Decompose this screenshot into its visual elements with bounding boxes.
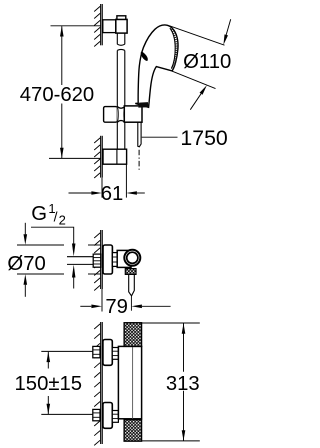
- handle inner circle: [127, 252, 138, 263]
- dia 70 extension bottom: [17, 273, 101, 275]
- spray face inner rim: [170, 28, 175, 68]
- wall extension below: [101, 289, 103, 312]
- bottom union nut: [93, 409, 100, 420]
- 313 extension top: [142, 322, 200, 324]
- wall hatching (top): [94, 6, 100, 46]
- svg-text:470-620: 470-620: [20, 84, 94, 106]
- svg-text:Ø70: Ø70: [7, 253, 45, 275]
- rail top piece: [116, 19, 127, 33]
- 61 extension left: [101, 178, 103, 198]
- top nipple: [112, 348, 118, 360]
- shower hose: [138, 122, 141, 147]
- dia 110 upper extension: [170, 26, 225, 45]
- svg-text:79: 79: [105, 296, 128, 318]
- bottom grip handle: [124, 420, 142, 442]
- knurled hose nut: [125, 269, 136, 275]
- holder waist: [117, 107, 126, 121]
- wall hatching (middle): [94, 233, 100, 291]
- tube break symbol: [117, 44, 125, 45]
- rail cap: [117, 16, 126, 20]
- dia 70 upper arrow: [24, 223, 26, 235]
- wall (middle): [101, 230, 103, 289]
- svg-text:/: /: [54, 208, 58, 224]
- glide holder knob (left): [104, 107, 117, 123]
- G 1/2 lower arrow: [73, 277, 75, 289]
- outlet tube: [129, 274, 135, 296]
- wall (bottom figure): [101, 322, 103, 444]
- top escutcheon: [103, 340, 112, 366]
- G 1/2 leader: [31, 227, 74, 244]
- bracket arm (top): [103, 20, 116, 33]
- 61 extension right: [125, 164, 127, 197]
- hand shower body: [135, 25, 178, 107]
- 150 extension bottom: [41, 413, 92, 415]
- dimension line 470-620: [61, 26, 63, 158]
- pipe nut: [93, 254, 101, 267]
- dimension 313 line: [183, 323, 185, 441]
- wall (bottom): [101, 136, 103, 178]
- dia 110 lower arrow: [190, 94, 201, 110]
- supply pipe behind wall: [67, 257, 93, 265]
- svg-text:150±15: 150±15: [15, 373, 83, 395]
- rail tube: [117, 33, 125, 149]
- dia 110 upper arrow: [226, 19, 231, 35]
- dia 70 extension top: [17, 244, 101, 246]
- valve body front: [118, 346, 141, 418]
- valve barrel: [117, 250, 131, 267]
- spray nozzle dots: [171, 29, 176, 69]
- dimension 61: [69, 192, 92, 194]
- svg-text:61: 61: [101, 183, 124, 205]
- body inner line: [132, 346, 134, 418]
- bottom escutcheon: [103, 403, 112, 429]
- holder cone (right): [124, 106, 142, 122]
- hose center dash-dot: [138, 150, 140, 172]
- dia 110 lower extension: [172, 71, 215, 88]
- bottom nipple: [112, 411, 118, 423]
- 313 extension bottom: [142, 440, 200, 442]
- extension line bottom (470-620): [49, 157, 101, 159]
- wall hatching (bottom): [94, 138, 100, 178]
- bottom bracket: [103, 149, 127, 164]
- dia 70 lower arrow: [24, 285, 26, 297]
- dimension 79: [80, 305, 91, 307]
- adapter: [112, 253, 117, 267]
- handle outer circle: [124, 250, 140, 266]
- svg-text:Ø110: Ø110: [183, 51, 231, 73]
- 150 extension top: [41, 350, 92, 352]
- handle collar (dark): [138, 102, 149, 108]
- wall (top): [101, 4, 103, 45]
- svg-text:2: 2: [59, 213, 66, 228]
- tube tip extension: [130, 297, 132, 311]
- svg-text:G: G: [31, 203, 47, 225]
- svg-text:313: 313: [166, 373, 200, 395]
- leader 1750: [142, 136, 178, 138]
- spray mode button: [141, 52, 147, 60]
- escutcheon fig2: [103, 245, 112, 274]
- top union nut: [93, 346, 100, 357]
- dimension 150 line: [47, 352, 49, 414]
- extension line top (470-620): [51, 25, 101, 27]
- svg-text:1750: 1750: [180, 126, 228, 150]
- bracket inner line: [116, 149, 118, 164]
- top grip handle: [124, 323, 142, 347]
- wall hatching (bottom figure): [94, 324, 100, 446]
